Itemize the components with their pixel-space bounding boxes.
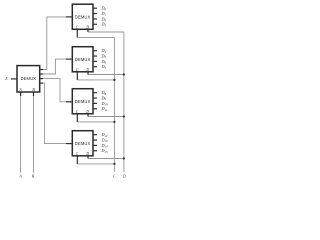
svg-text:D15: D15 [101,148,109,154]
svg-text:D: D [85,152,89,156]
svg-text:D: D [85,110,89,114]
svg-text:DEMUX: DEMUX [75,99,91,104]
svg-text:D11: D11 [101,106,108,112]
svg-text:D: D [85,68,89,72]
svg-text:D7: D7 [101,64,107,70]
svg-text:DEMUX: DEMUX [75,141,91,146]
svg-text:DEMUX: DEMUX [75,57,91,62]
svg-text:D: D [85,26,89,30]
svg-text:DEMUX: DEMUX [75,14,91,19]
svg-text:D: D [122,175,126,179]
svg-text:D3: D3 [101,22,107,28]
svg-text:DEMUX: DEMUX [21,76,37,81]
